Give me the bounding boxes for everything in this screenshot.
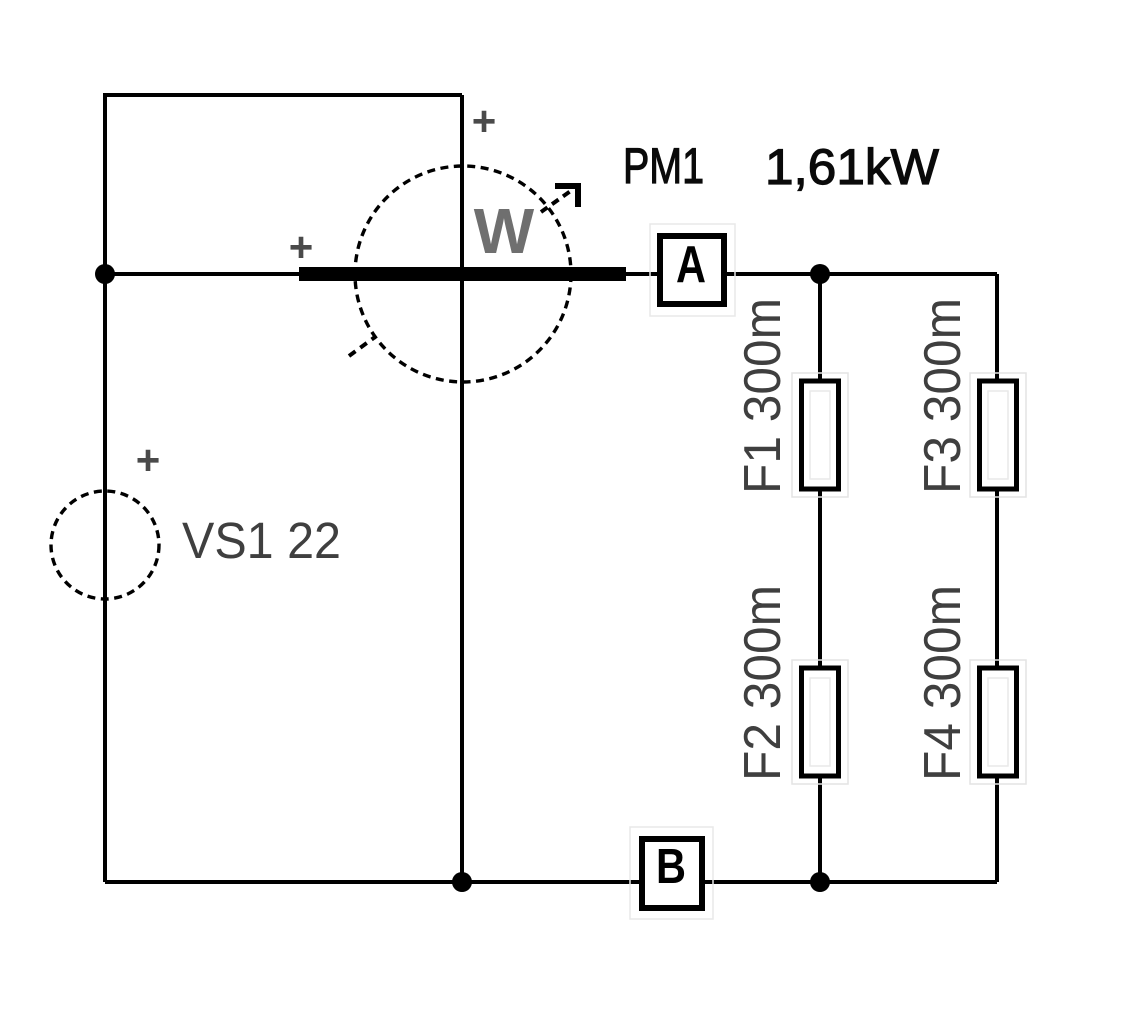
svg-text:1,61kW: 1,61kW: [765, 139, 940, 195]
wire right branch vertical: [995, 274, 999, 882]
wattmeter PM1 arrowhead: [555, 186, 578, 207]
svg-text:+: +: [136, 437, 161, 484]
junction node bottom middle: [452, 872, 472, 892]
wattmeter PM1 circle: [355, 166, 571, 382]
wire middle vertical through wattmeter: [460, 95, 464, 882]
resistor F1 body: [792, 373, 848, 497]
terminal B selection marks: [630, 827, 713, 919]
terminal A box: [660, 236, 724, 304]
svg-text:A: A: [676, 236, 706, 294]
svg-text:+: +: [289, 224, 314, 271]
svg-text:W: W: [474, 195, 535, 267]
svg-text:F2 300m: F2 300m: [734, 585, 792, 781]
junction node bottom F2: [810, 872, 830, 892]
wattmeter PM1 current bar: [299, 267, 626, 281]
wire horizontal through wattmeter to node: [105, 272, 997, 276]
wire top horizontal: [105, 93, 462, 97]
svg-text:VS1 22: VS1 22: [182, 512, 341, 569]
resistor F3 body: [970, 373, 1026, 497]
svg-text:F1 300m: F1 300m: [734, 298, 792, 494]
svg-text:F4 300m: F4 300m: [914, 585, 972, 781]
resistor F4 body: [970, 660, 1026, 784]
wire F1 F2 branch vertical: [818, 274, 822, 882]
wattmeter PM1 arrow shaft: [541, 190, 572, 212]
terminal A selection marks: [650, 224, 735, 316]
wire bottom horizontal: [105, 880, 997, 884]
junction node top F1: [810, 264, 830, 284]
wire left vertical: [103, 93, 107, 882]
svg-text:PM1: PM1: [623, 138, 704, 194]
svg-text:F3 300m: F3 300m: [914, 298, 972, 494]
wattmeter PM1 arrow tail: [349, 337, 375, 356]
terminal B box: [642, 839, 702, 908]
voltage source VS1 circle: [51, 491, 159, 599]
junction node left: [95, 264, 115, 284]
resistor F2 body: [792, 660, 848, 784]
svg-text:+: +: [472, 98, 497, 145]
svg-text:B: B: [656, 840, 686, 894]
